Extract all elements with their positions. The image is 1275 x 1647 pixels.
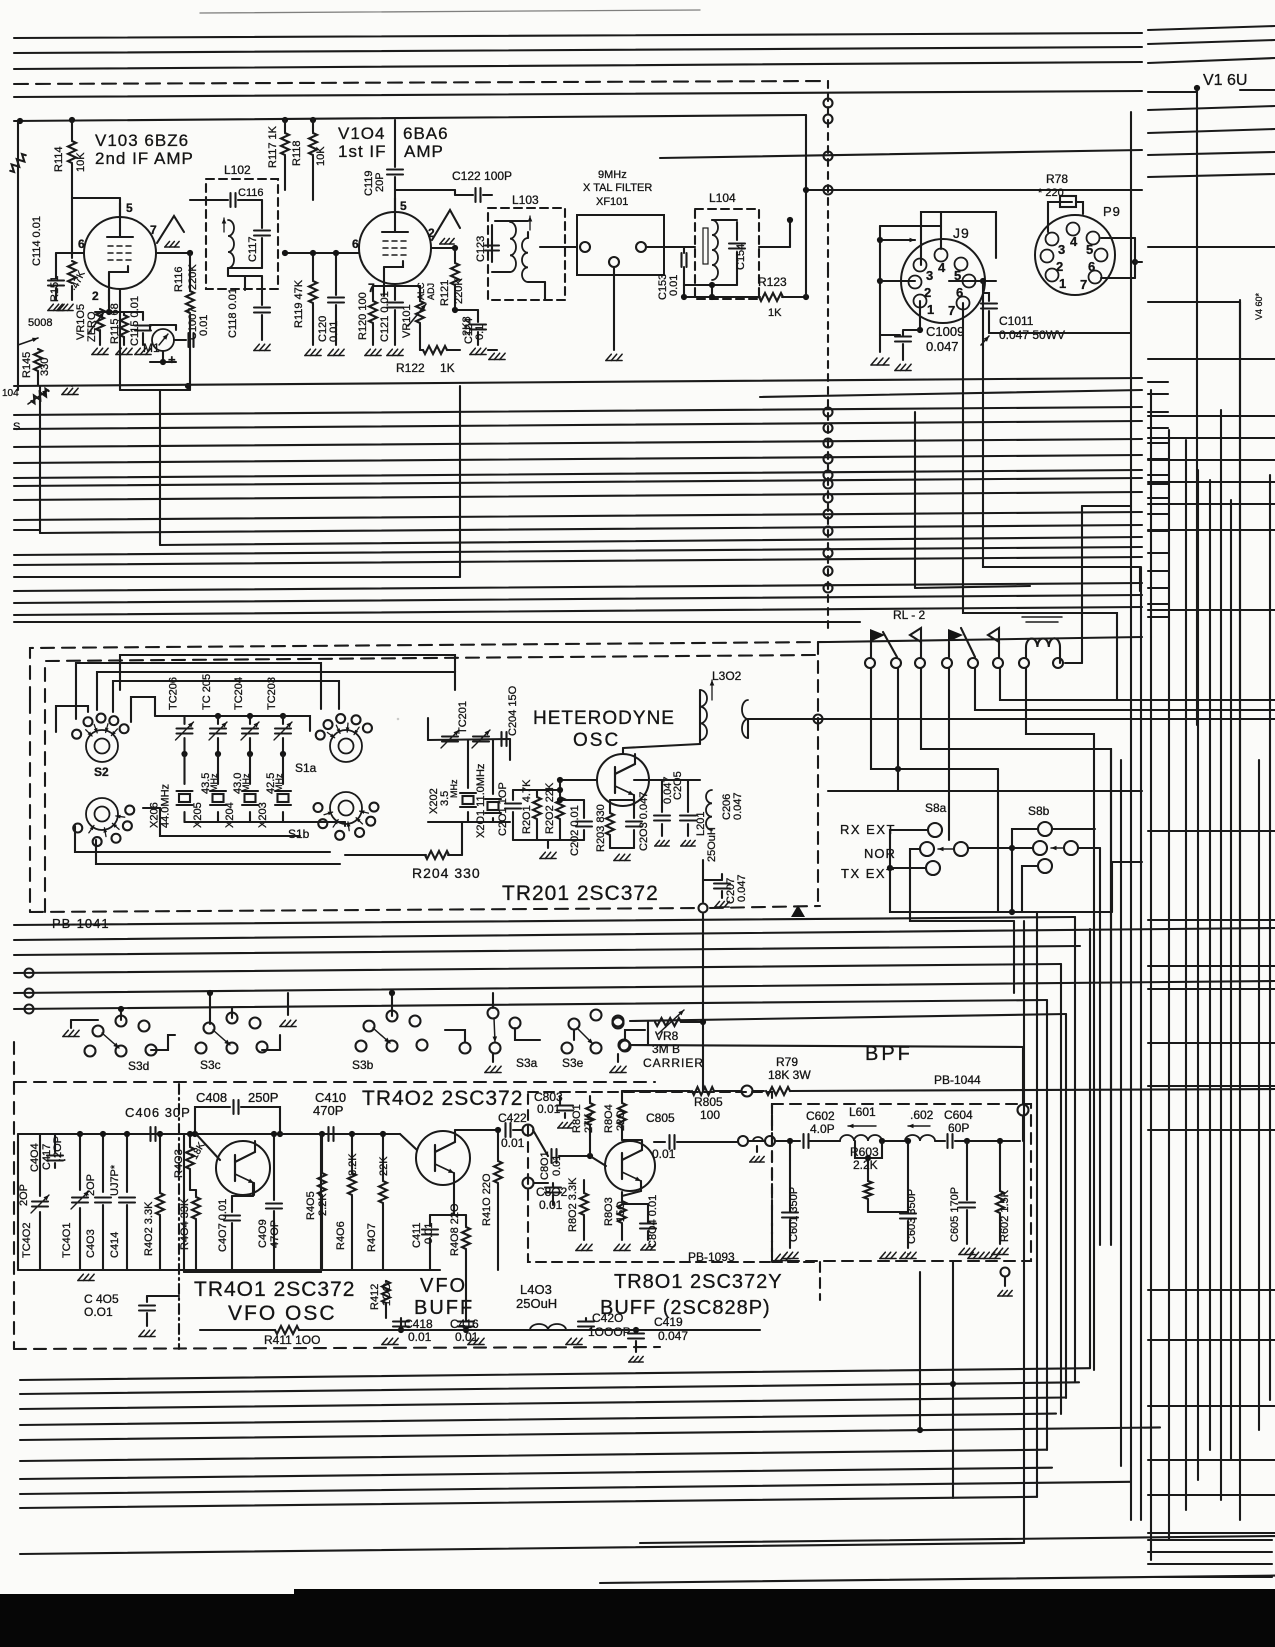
wire mesh vert 3 (1046, 1000, 1048, 1450)
resistor R603 (855, 1141, 882, 1158)
svg-text:9MHz: 9MHz (598, 169, 627, 181)
resistor R116 (189, 253, 191, 290)
svg-text:.602: .602 (910, 1108, 934, 1122)
svg-text:NOR: NOR (864, 846, 896, 861)
crossing bubble (814, 715, 823, 724)
capacitor C201 (513, 789, 560, 791)
svg-text:220K: 220K (187, 264, 199, 290)
svg-text:C2O3 0.047: C2O3 0.047 (638, 792, 650, 851)
svg-text:O.O1: O.O1 (84, 1305, 113, 1319)
wire riser 40 (39, 386, 41, 533)
ground S3c (287, 993, 289, 1015)
relay terminal (968, 658, 978, 668)
svg-text:VFO OSC: VFO OSC (228, 1302, 337, 1325)
svg-text:330: 330 (39, 358, 51, 376)
capacitor TCa (442, 735, 458, 737)
ground J9 (871, 358, 877, 365)
wire tr401 base (195, 1133, 217, 1135)
rotary switch S1b (330, 792, 362, 824)
wire rpage h 15 (1148, 1129, 1275, 1131)
wire gnd rail2 (466, 1269, 528, 1271)
pot VR8 (630, 1044, 648, 1046)
relay contact 3 (948, 642, 950, 657)
relay terminal (891, 658, 901, 668)
svg-text:470P: 470P (313, 1103, 343, 1118)
resistor R403 (189, 1134, 191, 1146)
svg-text:R4O7: R4O7 (366, 1223, 378, 1252)
wire bus mid 14 (14, 583, 1142, 591)
resistor R803 (621, 1192, 623, 1200)
svg-text:0.01: 0.01 (423, 1223, 435, 1244)
capacitor C410 (280, 1133, 325, 1135)
wire top bus 5 (660, 150, 1142, 158)
wire s8b nor (1012, 847, 1033, 849)
inductor L202 (700, 690, 707, 740)
wire rpage bottom (1148, 1563, 1272, 1565)
wire bus bottom 7 (20, 1468, 1052, 1479)
crystal X206 (183, 754, 185, 784)
svg-text:22O: 22O (615, 1110, 627, 1131)
svg-text:R117 1K: R117 1K (267, 125, 279, 168)
svg-text:C8O4 0.01: C8O4 0.01 (647, 1195, 659, 1248)
wire het top (120, 655, 455, 690)
capacitor C207 (703, 879, 722, 881)
inductor L201 (706, 790, 712, 830)
svg-text:C605 170P: C605 170P (949, 1187, 961, 1242)
wire grid (56, 252, 84, 254)
svg-text:TC 205: TC 205 (201, 674, 213, 710)
capacitor C416 (458, 1320, 474, 1322)
wire s8 bottom (1112, 862, 1142, 912)
capacitor C805 (654, 1141, 665, 1143)
wire top bus 4 (14, 91, 1142, 97)
wire tc201 row (428, 739, 510, 740)
tube V103 (84, 217, 156, 289)
switch S8a rx (928, 823, 942, 837)
svg-text:0.01: 0.01 (537, 1102, 561, 1116)
wire r804 down (622, 1139, 642, 1141)
wire het h2 (97, 672, 455, 710)
capacitor C420 (566, 1329, 580, 1331)
wire plate (119, 198, 121, 217)
wire c202 (560, 799, 584, 801)
capacitor C121 (394, 286, 396, 300)
svg-text:CARRIER: CARRIER (643, 1056, 704, 1070)
inductor L403 (530, 1324, 566, 1330)
relay contact 2 (920, 642, 922, 657)
wire meter (150, 324, 176, 326)
wire bus low 4 (14, 964, 1061, 973)
resistor R121 (454, 248, 456, 262)
crossing bubble (824, 480, 833, 489)
wire J9 feed (806, 189, 1142, 191)
resistor R120 (372, 286, 374, 300)
svg-text:S3a: S3a (516, 1056, 538, 1070)
relay contact 4 (998, 642, 1000, 657)
svg-text:M1: M1 (143, 341, 160, 355)
wire rp4 (1148, 91, 1197, 93)
capacitor C407 (231, 1196, 233, 1212)
transistor TR801 (605, 1141, 655, 1191)
svg-text:5: 5 (400, 199, 407, 213)
wire bus low 2 (14, 928, 1275, 940)
svg-text:R121: R121 (439, 280, 451, 306)
crystal X204 (249, 754, 251, 784)
wire mesh vert 8 (1099, 848, 1101, 1245)
ground VR105 (99, 330, 101, 345)
capacitor C204 (500, 732, 502, 746)
switch S3d (93, 1026, 104, 1037)
capacitor C605 (966, 1141, 968, 1200)
svg-text:MHz: MHz (449, 779, 459, 798)
resistor R801 (589, 1096, 591, 1102)
wire gutter stub (1148, 497, 1168, 499)
svg-text:V1 6U: V1 6U (1203, 72, 1247, 89)
capacitor TCb (473, 735, 489, 737)
svg-text:1OO: 1OO (381, 1282, 393, 1306)
wire c153 junction (684, 296, 737, 298)
svg-text:R120 100: R120 100 (357, 292, 369, 340)
svg-text:R41O 22O: R41O 22O (481, 1173, 493, 1226)
svg-text:HETERODYNE: HETERODYNE (533, 708, 675, 729)
wire vr8 line2 (630, 1045, 1023, 1104)
wire s3c feed (209, 993, 211, 1024)
svg-text:1st IF: 1st IF (338, 142, 387, 161)
crossing bubble (824, 527, 833, 536)
svg-text:R118: R118 (291, 141, 303, 166)
trimmer TC401 (79, 1134, 81, 1190)
wire rl drop3 (921, 668, 1111, 1240)
svg-text:C121 0.01: C121 0.01 (379, 291, 391, 342)
wire vfo rail (18, 1133, 390, 1135)
capacitor C1007 (174, 339, 186, 341)
wire bus mid 15 (14, 595, 1142, 603)
wire rl drop8 (1059, 658, 1061, 663)
svg-text:44.0MHz: 44.0MHz (160, 784, 172, 828)
svg-text:25OuH: 25OuH (706, 827, 718, 862)
wire rl drop4 (948, 668, 950, 840)
svg-text:S3b: S3b (352, 1058, 374, 1072)
svg-text:R119 47K: R119 47K (293, 279, 305, 328)
svg-text:VR8: VR8 (655, 1029, 679, 1043)
ground row (775, 1254, 780, 1260)
wire rpage h 18 (1148, 1405, 1275, 1407)
wire tr401 e (190, 1189, 196, 1191)
wire s3a wires (515, 1028, 540, 1040)
capacitor C419 (600, 1329, 636, 1331)
resistor R804 (621, 1091, 623, 1102)
svg-text:R4O5: R4O5 (305, 1191, 317, 1220)
wire bus mid 4 (14, 455, 1142, 463)
wire rpage vert 2 (1168, 430, 1170, 1540)
wire mesh vert 1 (1023, 921, 1025, 1543)
wire rl drop2 (897, 668, 899, 791)
wire pin1 drop (919, 301, 921, 330)
wire mid top2 (760, 390, 1142, 397)
svg-text:R411 1OO: R411 1OO (264, 1333, 320, 1347)
svg-text:S8a: S8a (925, 801, 947, 815)
svg-text:X2O1 11.0MHz: X2O1 11.0MHz (475, 764, 487, 838)
wire mid bpf (882, 1140, 905, 1142)
trimmer TC 205 (217, 716, 219, 724)
wire V104 grid (285, 252, 359, 254)
PCB box PB-1041 outer (30, 642, 828, 700)
svg-text:S1b: S1b (288, 827, 310, 841)
left rail (17, 121, 19, 390)
wire mid top (14, 378, 1142, 386)
wire riser 160 (159, 390, 161, 545)
capacitor C422 (455, 1129, 500, 1131)
svg-text:XF101: XF101 (596, 196, 628, 208)
svg-text:TC201: TC201 (457, 701, 469, 734)
wire s3 feeds (120, 1008, 122, 1020)
svg-text:0.01: 0.01 (539, 1198, 563, 1212)
resistor R117 (284, 119, 286, 132)
wire bus mid 10 (160, 537, 1142, 545)
wire rpage h 21 (1148, 1532, 1275, 1534)
wire rpage vert 1 (1150, 390, 1152, 1560)
svg-text:C8O2: C8O2 (536, 1185, 568, 1199)
crossing bubble (824, 584, 833, 593)
wire nor drop (1013, 921, 1015, 993)
wire bus mid 7 (14, 492, 1142, 500)
wire vr8 circ2 (619, 1040, 630, 1051)
wire rpage h 6 (1148, 529, 1275, 531)
wire het exit (702, 860, 704, 902)
svg-text:X TAL FILTER: X TAL FILTER (583, 182, 652, 194)
wire L102 bottom (228, 267, 262, 269)
svg-text:C114 0.01: C114 0.01 (31, 216, 43, 266)
wire rp11 (1148, 358, 1275, 360)
resistor R203 (609, 800, 611, 812)
svg-text:AMP: AMP (404, 142, 444, 161)
resistor R411 (200, 1329, 275, 1331)
inductor L103 box (488, 208, 565, 300)
svg-text:2: 2 (92, 289, 99, 303)
wire bottom join2 (952, 1262, 954, 1498)
svg-text:ADJ: ADJ (426, 283, 436, 300)
wire het mid (427, 718, 429, 740)
switch S8b tx (1038, 859, 1052, 873)
svg-text:4: 4 (938, 260, 946, 275)
wire bus mid 17 (14, 621, 860, 623)
svg-text:MHz: MHz (209, 773, 219, 792)
wire r411 left (199, 1296, 201, 1330)
wire L103 (495, 220, 528, 222)
wire het bottom1 (75, 826, 330, 852)
svg-text:TC206: TC206 (168, 677, 180, 710)
capacitor C122 (395, 189, 455, 191)
svg-text:R78: R78 (1046, 172, 1068, 186)
wire s2b link (143, 808, 300, 836)
wire bpf jumper (748, 1140, 765, 1142)
crossing bubble (824, 549, 833, 558)
capacitor C408 (195, 1107, 230, 1134)
wire rp3 (1148, 58, 1275, 63)
svg-text:S: S (13, 421, 20, 433)
capacitor C406 (149, 1127, 151, 1141)
inductor L104 box (695, 209, 759, 299)
switch S8b nor1 (1033, 841, 1047, 855)
wire s3 link2 (262, 1035, 280, 1050)
wire XF gnd (613, 267, 615, 350)
capacitor C1009 (880, 334, 900, 336)
wire rpage h 12 (1148, 988, 1275, 990)
wire bus mid 5 (14, 470, 1142, 478)
svg-text:104: 104 (2, 388, 19, 399)
wire rpage vert 8 (1239, 300, 1241, 1520)
svg-text:C604: C604 (944, 1108, 973, 1122)
wire bpf down (1018, 1105, 1029, 1116)
wire gutter stub (1148, 411, 1168, 413)
capacitor C117 (261, 200, 263, 228)
wire bus bottom 1 (20, 1368, 1090, 1380)
wire tr201 emitter (633, 800, 635, 806)
svg-text:V4 60*: V4 60* (1254, 292, 1264, 320)
terminal (580, 242, 590, 252)
svg-text:10K: 10K (75, 152, 87, 172)
wire bus bottom 6 (20, 1450, 1047, 1461)
wire rpage h 10 (1148, 919, 1275, 921)
svg-text:C2O5: C2O5 (672, 771, 684, 800)
wire s8b tx (1022, 866, 1038, 912)
wire tc bus (155, 715, 283, 717)
svg-text:TR4O2 2SC372: TR4O2 2SC372 (362, 1087, 523, 1110)
coil L103b (522, 238, 528, 282)
svg-text:C4O7 0.01: C4O7 0.01 (217, 1199, 229, 1252)
svg-text:UJ7P*: UJ7P* (109, 1164, 121, 1196)
svg-text:OSC: OSC (573, 730, 620, 751)
wire bpf series (775, 1140, 800, 1142)
svg-text:20P: 20P (374, 172, 386, 192)
svg-text:PB-1044: PB-1044 (934, 1073, 981, 1087)
svg-text:0.01: 0.01 (408, 1330, 432, 1344)
crossing bubble (824, 186, 833, 195)
svg-text:J9: J9 (953, 225, 970, 241)
wire gutter stub (1148, 474, 1168, 476)
wire s8a nor (910, 849, 1014, 921)
svg-text:P9: P9 (1103, 204, 1121, 219)
svg-text:47OP: 47OP (269, 1220, 281, 1248)
svg-text:R203 830: R203 830 (595, 804, 607, 852)
svg-text:1OOOP: 1OOOP (588, 1325, 631, 1339)
inductor L602 (905, 1135, 935, 1141)
wire tr402 e (453, 1185, 455, 1215)
resistor R406 (351, 1134, 353, 1172)
wire rpage vert 4 (1197, 470, 1199, 1480)
wire rp9 (1148, 246, 1275, 248)
crossing bubble (824, 152, 833, 161)
svg-text:C8O1: C8O1 (539, 1151, 551, 1180)
wire rl drop1 (871, 668, 998, 769)
wire P9 right (1101, 237, 1135, 239)
crystal X203 (282, 754, 284, 784)
svg-text:C204 15O: C204 15O (507, 685, 519, 736)
capacitor C202 (583, 800, 585, 818)
wire s3 link1 (151, 1035, 175, 1050)
wire bus mid 3 (14, 439, 1142, 447)
resistor R405 (321, 1134, 323, 1172)
wire vr8 circ1 (613, 1016, 624, 1027)
wire bus bottom 10 (640, 1536, 1275, 1543)
wire het h5 (56, 706, 88, 732)
wire rpage h 19 (1148, 1459, 1275, 1461)
relay terminal (942, 658, 952, 668)
svg-text:X203: X203 (257, 802, 269, 828)
capacitor C153 (660, 246, 680, 248)
wire het gnd bus (513, 839, 584, 841)
capacitor C603 (907, 1141, 909, 1212)
capacitor C409 (273, 1134, 275, 1200)
wire rpage h 8 (748, 718, 1275, 720)
svg-text:C411: C411 (411, 1223, 423, 1248)
solid box TR401 (183, 1134, 185, 1272)
wire riser 460 (459, 386, 461, 577)
capacitor C203 (633, 800, 635, 818)
wire gutter stub (1148, 381, 1168, 383)
svg-text:2.2K: 2.2K (853, 1158, 878, 1172)
svg-text:7: 7 (948, 303, 955, 318)
wire bus mid 2 (14, 421, 1142, 429)
svg-text:0.047: 0.047 (926, 339, 959, 354)
svg-text:5008: 5008 (28, 317, 52, 329)
svg-text:L3O2: L3O2 (712, 669, 742, 683)
wire rp8 (1148, 174, 1275, 177)
svg-text:TC203: TC203 (266, 677, 278, 710)
svg-text:PB-1093: PB-1093 (688, 1250, 735, 1264)
svg-text:0.01: 0.01 (198, 315, 210, 336)
svg-text:R204 330: R204 330 (412, 865, 481, 881)
svg-text:5: 5 (126, 201, 133, 215)
rotary switch S1a (330, 730, 362, 762)
wire bus bottom 8 (20, 1482, 1130, 1494)
coil L102 (228, 220, 234, 268)
relay terminal (1019, 658, 1029, 668)
svg-text:L601: L601 (849, 1105, 876, 1119)
svg-text:C 4O5: C 4O5 (84, 1292, 119, 1306)
svg-text:2OP: 2OP (85, 1174, 97, 1196)
wire gutter stub (1148, 616, 1168, 618)
ground exit (1001, 1268, 1010, 1277)
svg-text:TC4O2: TC4O2 (21, 1223, 33, 1258)
resistor R402 (159, 1134, 161, 1192)
svg-text:RX EXT: RX EXT (840, 822, 896, 837)
wire bus mid 6 (14, 478, 1142, 486)
svg-text:R122: R122 (396, 361, 425, 375)
capacitor C1011 (983, 293, 989, 301)
wire rpage vert 6 (1220, 410, 1222, 1500)
wire gutter stub (1148, 513, 1168, 515)
crystal X201 (492, 740, 494, 794)
svg-text:MHz: MHz (274, 773, 284, 792)
wire mesh vert 10 (1120, 760, 1122, 1466)
relay terminal (993, 658, 1003, 668)
wire tr801 base (589, 1156, 591, 1164)
svg-text:1K: 1K (440, 361, 455, 375)
svg-text:18K 3W: 18K 3W (768, 1068, 811, 1082)
inductor L601 (840, 1135, 882, 1141)
wire bottom L104 (684, 284, 712, 286)
capacitor C118 (261, 276, 263, 305)
svg-text:C123: C123 (475, 236, 487, 262)
svg-text:0.01: 0.01 (328, 321, 340, 342)
wire c416 up (465, 1270, 467, 1318)
wire rpage h 16 (1148, 1289, 1275, 1291)
svg-text:C603 350P: C603 350P (906, 1189, 918, 1244)
wire J9 pin6 (949, 280, 996, 282)
svg-text:0.1: 0.1 (474, 325, 486, 340)
svg-text:C4O9: C4O9 (257, 1219, 269, 1248)
